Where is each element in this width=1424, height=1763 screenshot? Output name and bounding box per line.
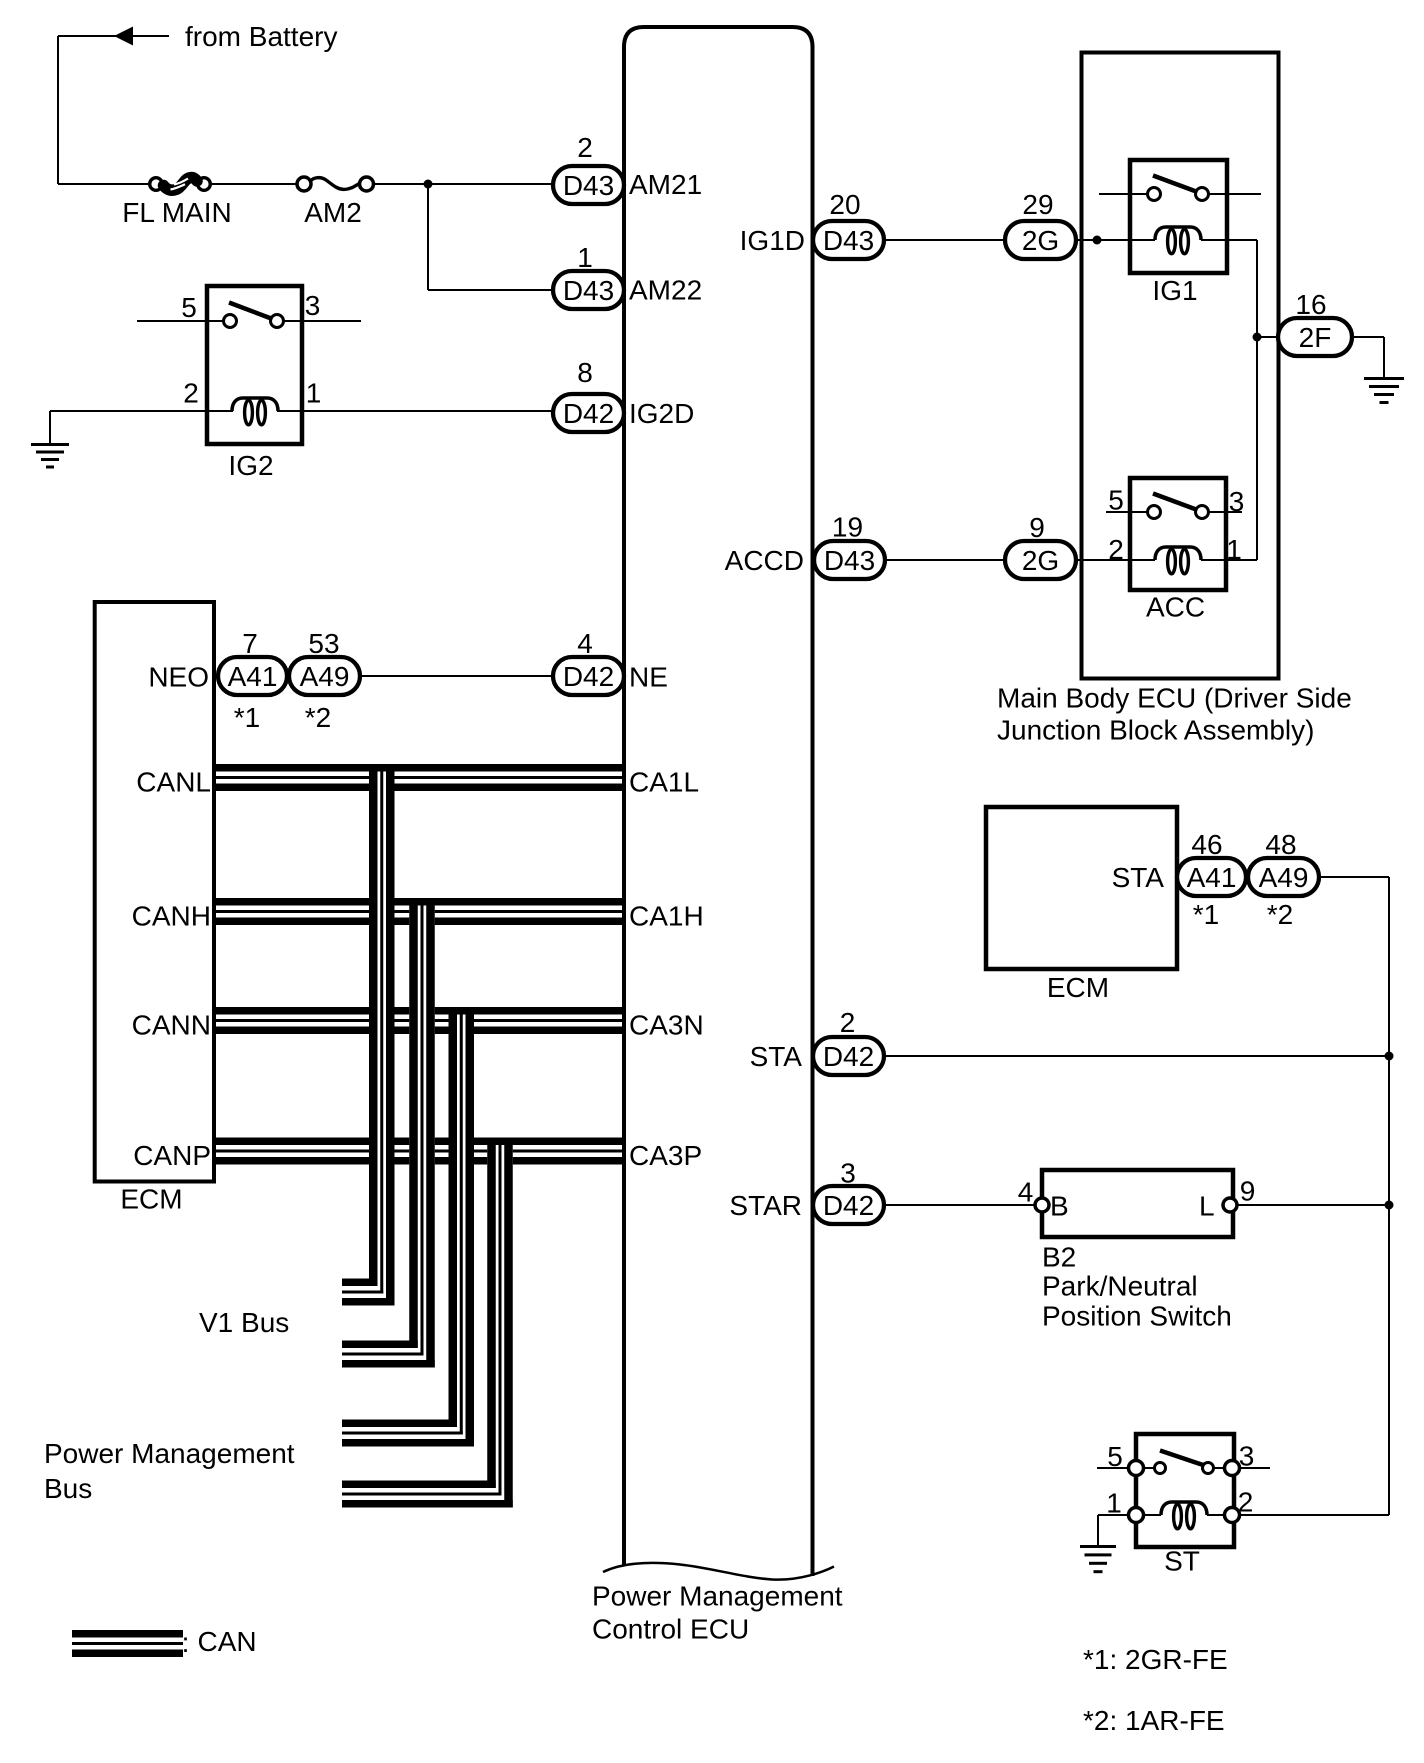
- wire branch to connector D43 pin 1: [427, 184, 429, 290]
- svg-text:3: 3: [840, 1158, 856, 1189]
- wire from Battery feed: [58, 35, 116, 37]
- svg-text:2G: 2G: [1022, 225, 1059, 256]
- svg-text:2: 2: [1108, 534, 1124, 565]
- svg-text:ECM: ECM: [120, 1184, 182, 1215]
- wire ST pin 2 to STA branch: [1240, 1514, 1389, 1516]
- IG2 switch contact wire: [137, 320, 232, 322]
- connector 2G pin 9: [1005, 541, 1076, 579]
- svg-text:1: 1: [1106, 1488, 1122, 1519]
- CAN bus CANL to CA1L: [216, 764, 622, 791]
- svg-text:1: 1: [577, 242, 593, 273]
- wire AM2 to connector D43 pin 2: [374, 183, 554, 185]
- connector 2G pin 29: [1005, 221, 1076, 259]
- svg-text:5: 5: [1108, 485, 1124, 516]
- svg-text:2: 2: [183, 378, 199, 409]
- ground 2F: [1364, 377, 1404, 404]
- svg-text:from Battery: from Battery: [185, 21, 337, 52]
- svg-text:CANH: CANH: [132, 901, 211, 932]
- CAN bus elbow stub from CANH: [342, 1341, 435, 1368]
- svg-text:4: 4: [1018, 1177, 1034, 1208]
- CAN bus vertical drop from CANN: [449, 1015, 475, 1420]
- svg-text:*1: *1: [234, 702, 260, 733]
- svg-text:A49: A49: [1259, 862, 1309, 893]
- svg-text:A41: A41: [1187, 862, 1237, 893]
- svg-text:CANL: CANL: [136, 767, 211, 798]
- connector A41 pin 46: [1177, 858, 1246, 896]
- svg-text:D43: D43: [823, 225, 874, 256]
- svg-text:ST: ST: [1164, 1546, 1200, 1577]
- ACC switch contact wire: [1106, 511, 1156, 513]
- svg-text:ACC: ACC: [1146, 592, 1205, 623]
- CAN legend symbol: [72, 1630, 183, 1657]
- svg-text:IG2D: IG2D: [629, 398, 694, 429]
- CAN bus CANN to CA3N: [216, 1007, 622, 1034]
- ST switch contact wire: [1097, 1467, 1162, 1469]
- CAN bus elbow stub from CANN: [342, 1420, 474, 1447]
- svg-text:IG2: IG2: [228, 450, 273, 481]
- svg-text:Position Switch: Position Switch: [1042, 1301, 1232, 1332]
- IG2 coil wire left to ground: [50, 410, 233, 412]
- svg-text:Control ECU: Control ECU: [592, 1614, 749, 1645]
- wire D43 to 2G: [885, 559, 1005, 561]
- park/neutral position switch B2: [1042, 1170, 1233, 1237]
- connector 2F pin 16: [1278, 318, 1352, 356]
- wire to connector 2F: [1257, 336, 1279, 338]
- IG1 switch contact wire: [1099, 193, 1156, 195]
- svg-text:AM21: AM21: [629, 169, 702, 200]
- connector D42 pin 8 (IG2D): [553, 394, 624, 432]
- fuse AM2: [297, 177, 374, 191]
- ST terminal 2 circle: [1225, 1508, 1240, 1523]
- svg-text:Junction Block Assembly): Junction Block Assembly): [997, 715, 1314, 746]
- svg-text:*2: *2: [305, 702, 331, 733]
- svg-text:16: 16: [1295, 289, 1326, 320]
- svg-text:B2: B2: [1042, 1242, 1076, 1273]
- connector D43 pin 1 (AM22): [553, 271, 624, 309]
- CAN bus vertical drop from CANL: [369, 772, 395, 1279]
- svg-text:3: 3: [1229, 486, 1245, 517]
- wire to ground: [49, 411, 51, 444]
- ST coil wire: [1098, 1514, 1161, 1516]
- wire IG1 coil down to ACC coil: [1256, 240, 1258, 560]
- ECU torn bottom edge: [603, 1563, 834, 1580]
- svg-text:STAR: STAR: [729, 1190, 802, 1221]
- svg-text:IG1D: IG1D: [740, 225, 805, 256]
- svg-text:FL MAIN: FL MAIN: [122, 197, 231, 228]
- wire D43 to 2G: [884, 239, 1005, 241]
- ECM box left: [95, 602, 214, 1182]
- connector D43 pin 19 (ACCD): [814, 541, 885, 579]
- wire B2 L to branch: [1237, 1204, 1389, 1206]
- junction node STAR: [1385, 1201, 1394, 1210]
- svg-text:5: 5: [181, 292, 197, 323]
- wire IG2 coil to connector D42 pin 8: [277, 410, 553, 412]
- IG1 coil wire right: [1201, 239, 1257, 241]
- Power Management Control ECU outline: [624, 27, 813, 1576]
- ST coil: [1161, 1502, 1207, 1529]
- CAN bus vertical drop from CANP: [487, 1145, 513, 1481]
- svg-text:3: 3: [1239, 1441, 1255, 1472]
- svg-text:CANN: CANN: [132, 1010, 211, 1041]
- connector D43 pin 2 (AM21): [553, 166, 624, 204]
- Main Body ECU box: [1082, 53, 1279, 679]
- svg-text:STA: STA: [750, 1041, 803, 1072]
- CAN bus CANP to CA3P: [216, 1138, 622, 1165]
- IG2 switch contacts: [224, 315, 237, 328]
- svg-text:*1: 2GR-FE: *1: 2GR-FE: [1083, 1644, 1228, 1675]
- svg-text:20: 20: [829, 189, 860, 220]
- svg-text:9: 9: [1029, 512, 1045, 543]
- ground IG2: [31, 443, 69, 469]
- svg-text:9: 9: [1240, 1176, 1256, 1207]
- svg-text:1: 1: [306, 378, 322, 409]
- svg-text:ECM: ECM: [1047, 972, 1109, 1003]
- relay IG2: [207, 286, 302, 444]
- wire 2F to ground: [1352, 336, 1384, 338]
- svg-text:ACCD: ACCD: [725, 545, 804, 576]
- svg-text:V1 Bus: V1 Bus: [199, 1307, 289, 1338]
- svg-text:D43: D43: [563, 170, 614, 201]
- ground ST: [1080, 1545, 1116, 1573]
- ECM box right: [986, 807, 1177, 969]
- svg-text:D42: D42: [563, 398, 614, 429]
- junction node: [1093, 236, 1102, 245]
- svg-text:CA3N: CA3N: [629, 1010, 704, 1041]
- svg-text:Power Management: Power Management: [44, 1438, 295, 1469]
- arrow to Battery: [114, 27, 133, 46]
- svg-text:2G: 2G: [1022, 545, 1059, 576]
- IG2 coil: [232, 398, 278, 425]
- ACC switch blade: [1153, 494, 1198, 511]
- svg-text:CA1H: CA1H: [629, 901, 704, 932]
- svg-text:B: B: [1050, 1191, 1069, 1222]
- fusible link FL MAIN: [150, 178, 211, 191]
- svg-text:D43: D43: [824, 545, 875, 576]
- svg-text:2: 2: [1238, 1487, 1254, 1518]
- svg-text::: :: [182, 1627, 190, 1658]
- CAN bus vertical drop from CANH: [409, 906, 435, 1341]
- connector D42 pin 3 (STAR): [813, 1186, 884, 1224]
- IG1 switch blade: [1153, 176, 1198, 193]
- svg-text:Park/Neutral: Park/Neutral: [1042, 1271, 1198, 1302]
- svg-text:D42: D42: [823, 1041, 874, 1072]
- svg-text:D43: D43: [563, 275, 614, 306]
- ACC coil: [1155, 547, 1201, 574]
- svg-text:46: 46: [1191, 829, 1222, 860]
- wire 2G to ACC relay coil: [1076, 559, 1155, 561]
- connector A49 pin 53: [289, 657, 360, 695]
- svg-text:CANP: CANP: [133, 1140, 211, 1171]
- svg-text:1: 1: [1226, 534, 1242, 565]
- ST switch contacts: [1155, 1463, 1166, 1474]
- svg-text:*2: 1AR-FE: *2: 1AR-FE: [1083, 1705, 1225, 1736]
- ST terminal 5 circle: [1129, 1461, 1144, 1476]
- svg-text:NE: NE: [629, 662, 668, 693]
- B2 terminal L: [1223, 1198, 1237, 1212]
- svg-text:2: 2: [840, 1007, 856, 1038]
- CAN bus CANH to CA1H: [216, 898, 622, 925]
- svg-text:Main Body ECU (Driver Side: Main Body ECU (Driver Side: [997, 683, 1352, 714]
- wire FL MAIN to AM2: [211, 183, 298, 185]
- svg-text:53: 53: [308, 628, 339, 659]
- svg-text:D42: D42: [563, 661, 614, 692]
- connector D42 pin 2 (STA): [813, 1037, 884, 1075]
- svg-text:3: 3: [305, 290, 321, 321]
- svg-text:8: 8: [577, 357, 593, 388]
- svg-text:5: 5: [1107, 1441, 1123, 1472]
- svg-text:CAN: CAN: [198, 1626, 257, 1657]
- svg-text:L: L: [1199, 1191, 1215, 1222]
- svg-text:CA3P: CA3P: [629, 1140, 702, 1171]
- junction node at 2F: [1253, 333, 1262, 342]
- wire D42 STAR to B2 switch: [884, 1204, 1038, 1206]
- wire 2G to IG1 relay coil: [1076, 239, 1155, 241]
- junction node STA: [1385, 1052, 1394, 1061]
- wire A49 to STA branch: [1319, 876, 1389, 878]
- svg-text:IG1: IG1: [1152, 275, 1197, 306]
- svg-text:48: 48: [1265, 829, 1296, 860]
- svg-text:CA1L: CA1L: [629, 767, 699, 798]
- CAN bus elbow stub from CANP: [342, 1481, 513, 1508]
- B2 terminal B: [1035, 1198, 1049, 1212]
- wire A49 to connector D42 pin 4: [360, 675, 553, 677]
- ST terminal 3 circle: [1225, 1461, 1240, 1476]
- CAN bus elbow stub from CANL: [342, 1279, 395, 1306]
- IG1 switch contacts: [1148, 188, 1161, 201]
- ST switch blade: [1160, 1451, 1205, 1466]
- svg-text:D42: D42: [823, 1190, 874, 1221]
- IG1 coil: [1155, 227, 1201, 254]
- connector D43 pin 20 (IG1D): [813, 221, 884, 259]
- svg-text:A41: A41: [228, 661, 278, 692]
- svg-text:19: 19: [832, 512, 863, 543]
- svg-text:2: 2: [577, 132, 593, 163]
- ST terminal 1 circle: [1129, 1508, 1144, 1523]
- svg-text:Bus: Bus: [44, 1473, 92, 1504]
- ACC switch contacts: [1148, 506, 1161, 519]
- IG2 switch blade: [229, 303, 273, 320]
- wire D42 STA to branch: [884, 1055, 1389, 1057]
- connector A49 pin 48: [1248, 858, 1319, 896]
- connector D42 pin 4 (NE): [553, 657, 624, 695]
- svg-text:AM2: AM2: [304, 197, 362, 228]
- svg-text:29: 29: [1022, 189, 1053, 220]
- svg-text:*1: *1: [1193, 899, 1219, 930]
- svg-text:NEO: NEO: [148, 662, 209, 693]
- relay ST: [1136, 1434, 1234, 1547]
- svg-text:AM22: AM22: [629, 275, 702, 306]
- connector A41 pin 7: [218, 657, 287, 695]
- ACC coil wire right: [1201, 559, 1257, 561]
- svg-text:STA: STA: [1112, 862, 1165, 893]
- relay ACC: [1130, 478, 1226, 590]
- relay IG1: [1130, 160, 1227, 273]
- svg-text:Power Management: Power Management: [592, 1581, 843, 1612]
- svg-text:A49: A49: [300, 661, 350, 692]
- svg-text:7: 7: [242, 628, 258, 659]
- junction node: [424, 180, 433, 189]
- wire ST pin 1 to ground: [1097, 1515, 1099, 1546]
- svg-text:*2: *2: [1267, 899, 1293, 930]
- svg-text:4: 4: [577, 628, 593, 659]
- svg-text:2F: 2F: [1299, 322, 1332, 353]
